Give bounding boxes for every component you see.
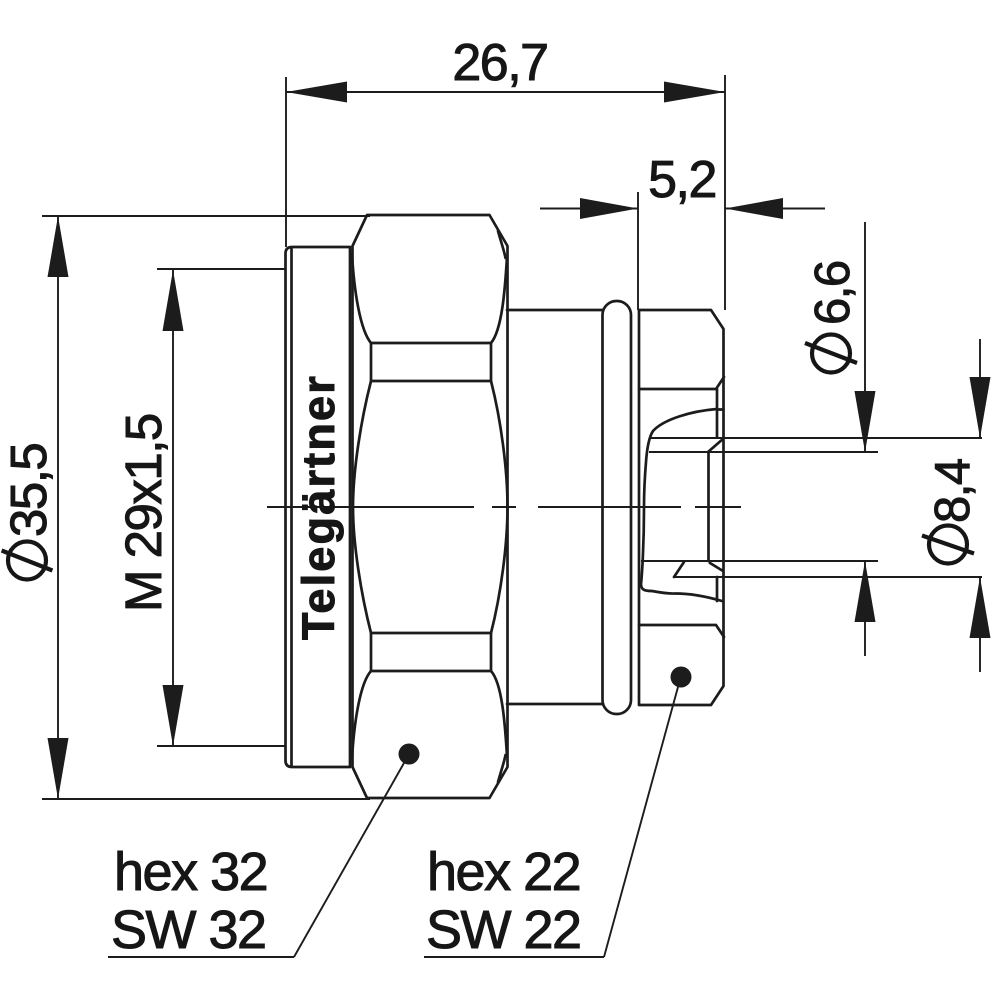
hex32 right hyperbola <box>491 381 508 633</box>
extension line dia66 top <box>649 451 878 453</box>
hex22 inner vertical bottom <box>716 577 719 601</box>
flange inner face line <box>290 248 293 766</box>
svg-text:8,4: 8,4 <box>926 459 980 523</box>
hex22 inner chamfer slant top <box>708 439 724 453</box>
centerline <box>267 506 741 508</box>
dim 5,2 left arrow <box>580 198 638 219</box>
svg-text:35,5: 35,5 <box>0 444 57 537</box>
hex22 inner slant bottom-right <box>710 563 723 571</box>
leader dot hex22 <box>671 667 692 688</box>
dim 26,7 right arrow <box>664 82 725 103</box>
dia35,5 top extension <box>42 215 370 217</box>
extension line dia84 top <box>650 437 982 439</box>
dia8,4 bottom arrow <box>970 577 991 638</box>
M29 bottom arrow <box>163 685 184 746</box>
dia6,6 top arrow <box>855 391 876 452</box>
cylinder bottom line <box>507 703 603 706</box>
dim 26,7 line <box>286 91 725 93</box>
hex32 upper facet arc <box>352 254 507 343</box>
svg-text:hex 32: hex 32 <box>114 842 267 902</box>
svg-text:SW 22: SW 22 <box>426 900 581 960</box>
hex22 inner step line top <box>717 408 724 411</box>
hex32 lower facet arc <box>352 671 507 759</box>
svg-text:5,2: 5,2 <box>648 151 716 209</box>
dim dia35,5 line <box>57 216 59 799</box>
leader dot hex32 <box>399 744 420 765</box>
hex32 corner sliver top-right <box>498 231 506 258</box>
dim dia8,4 line top <box>979 339 981 438</box>
hex22 inner sweep top <box>644 409 717 507</box>
hex32 nut outline <box>353 215 508 798</box>
dim 26,7 / 5,2 right extension <box>724 75 726 310</box>
hex32 left hyperbola <box>353 381 371 633</box>
dim dia8,4 line bottom <box>979 577 981 672</box>
hex22 upper facet vertical <box>716 389 719 437</box>
dim 26,7 left extension <box>285 77 287 247</box>
dim dia6,6 line top <box>864 222 866 452</box>
M29 top extension <box>157 268 285 270</box>
dim 5,2 line left tail <box>540 208 638 210</box>
M29 top arrow <box>163 270 184 331</box>
dia35,5 bottom arrow <box>48 738 69 799</box>
dim dia6,6 line bottom <box>864 561 866 656</box>
cylinder top line <box>507 309 603 312</box>
dim 5,2 right tail <box>725 208 825 210</box>
flange outline <box>286 247 351 767</box>
M29 bottom extension <box>157 745 285 747</box>
dim M29 line <box>172 270 174 746</box>
svg-text:SW 32: SW 32 <box>111 900 266 960</box>
hex32 upper band line <box>371 343 491 381</box>
underline hex22 <box>424 956 604 958</box>
extension line dia66 bottom <box>641 560 878 562</box>
hex32 lower band line <box>371 633 491 671</box>
leader line hex32 <box>294 763 404 957</box>
hex22 lower facet line <box>639 625 724 637</box>
hex32 corner sliver bottom-right <box>498 755 506 782</box>
dim 5,2 right arrow <box>725 198 783 219</box>
hex22 inner slant bottom-left <box>674 562 684 577</box>
dia35,5 bottom extension <box>42 798 370 800</box>
dia6,6 bottom arrow <box>855 561 876 622</box>
svg-text:hex 22: hex 22 <box>427 842 580 902</box>
hex22 inner bore vertical <box>707 452 710 561</box>
svg-text:Telegärtner: Telegärtner <box>293 374 344 640</box>
dim 26,7 left arrow <box>286 82 347 103</box>
extension line dia84 bottom <box>675 576 982 578</box>
hex22 upper facet line <box>639 377 724 389</box>
dia8,4 top arrow <box>970 377 991 438</box>
capsule ring <box>603 301 632 714</box>
dim 5,2 left extension <box>637 192 639 310</box>
svg-text:26,7: 26,7 <box>452 34 547 92</box>
hex22 body outline <box>639 310 724 705</box>
dia35,5 top arrow <box>48 216 69 277</box>
leader line hex22 <box>604 687 678 957</box>
underline hex32 <box>108 956 294 958</box>
hex22 inner sweep bottom <box>641 507 722 601</box>
svg-text:M 29x1,5: M 29x1,5 <box>115 414 172 612</box>
svg-text:6,6: 6,6 <box>806 261 860 325</box>
